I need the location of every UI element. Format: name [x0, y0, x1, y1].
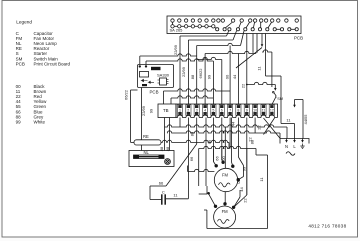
svg-text:FM: FM: [222, 209, 229, 214]
svg-text:66: 66: [189, 156, 194, 161]
lower motor diagonal feed right: [234, 197, 240, 207]
lower FM terminals: [214, 205, 217, 208]
svg-text:C: C: [162, 189, 165, 194]
svg-text:66: 66: [215, 156, 220, 161]
U-link to lower motor: [199, 193, 207, 195]
upper FM terminals: [215, 165, 218, 168]
SA330 pin joints: [139, 66, 141, 68]
mains terminal L: [294, 139, 296, 142]
bus y59.5: [197, 57, 222, 59]
svg-text:44: 44: [239, 187, 244, 192]
svg-text:PCB: PCB: [150, 90, 159, 95]
TB wavy bottom edge: [176, 115, 278, 118]
bus y37.6 (t2 feed, slants into PCB): [188, 39, 233, 41]
svg-text:RE: RE: [143, 134, 149, 139]
bus y61 into SA330 pin 2: [146, 59, 213, 61]
svg-text:99: 99: [16, 119, 22, 124]
svg-text:7: 7: [229, 108, 231, 112]
SA330 component: relay (dark block): [151, 67, 161, 70]
diagonal wire joining 44 net: [236, 48, 262, 69]
bus y98: [171, 96, 213, 98]
SA330 component: diode arrows: [142, 79, 148, 81]
svg-text:00: 00: [225, 74, 230, 79]
svg-text:Print Circuit Board: Print Circuit Board: [34, 61, 71, 66]
svg-text:Legend: Legend: [16, 19, 32, 24]
capacitor C plates: [150, 199, 161, 201]
svg-text:44: 44: [232, 74, 237, 79]
SA265 link from chained group to right pins: [215, 27, 216, 28]
TB terminal 9: [245, 105, 248, 108]
svg-text:NL: NL: [144, 150, 150, 155]
SA265 top pin row: [171, 19, 174, 22]
SA330 pin1 drop: [139, 56, 141, 65]
svg-text:66/22: 66/22: [123, 89, 128, 100]
PCB SA330 outline: [138, 65, 174, 88]
SM wire to TB terminal 12: [272, 98, 275, 104]
diagonal from t11 to bracket: [264, 118, 281, 138]
loop around lower motor: [255, 149, 257, 156]
svg-text:PCB: PCB: [294, 36, 303, 41]
svg-text:22/99: 22/99: [141, 105, 146, 116]
svg-text:3: 3: [196, 108, 198, 112]
wire 00 (PCB to TB terminal 7): [229, 46, 231, 105]
diagonal from t12 down-left: [264, 118, 275, 135]
bus y84.5 to switch main: [247, 82, 275, 84]
TB terminal 10: [253, 105, 256, 108]
bus y127 to mains N: [165, 125, 288, 127]
bus y171.5 into upper FM left: [187, 166, 189, 172]
svg-text:99: 99: [149, 108, 154, 113]
svg-text:2: 2: [187, 108, 189, 112]
wire to TB terminal 5: [212, 61, 214, 104]
svg-text:SA 265: SA 265: [170, 28, 184, 33]
TB terminal 5: [212, 105, 215, 108]
svg-text:88: 88: [190, 74, 195, 79]
svg-text:5: 5: [212, 108, 214, 112]
bus y34.2 (t1 feed, slants into PCB): [180, 35, 227, 37]
SA330 pin2 drop: [145, 61, 147, 65]
capacitor loop top: [150, 185, 166, 187]
TB terminal cells 1-12: [176, 104, 278, 118]
bus y142 from RE: [161, 140, 229, 142]
wire to TB terminal 2: [187, 40, 189, 104]
svg-text:4: 4: [204, 108, 206, 112]
svg-text:6: 6: [221, 108, 223, 112]
SA330 component: small dark resistor: [142, 84, 147, 86]
SA330 component: IC square: [160, 78, 167, 85]
TB terminal 6: [220, 105, 223, 108]
wire 22/99 from SA330 to neon lamp: [141, 88, 143, 140]
TB drops into buses: [164, 118, 166, 151]
bus y133 to mains bracket: [167, 131, 280, 133]
wire to TB terminal 3: [196, 46, 198, 105]
SA265 jumper links: [225, 22, 232, 28]
svg-text:22/99: 22/99: [173, 44, 178, 55]
fan motor FM (upper): [214, 168, 237, 191]
fan motor FM (lower): [214, 206, 236, 228]
wire 11: corner run to mains N: [266, 75, 282, 77]
svg-text:88: 88: [250, 139, 255, 144]
PCB SA 265 outline: [167, 16, 301, 34]
neon lamp assembly box: [129, 151, 174, 167]
SA265 bottom pin row (left group, chained): [171, 25, 174, 28]
svg-text:66/22: 66/22: [198, 68, 203, 79]
wire 44 into motor right side: [238, 157, 243, 166]
wire to switch main SM: [271, 52, 273, 87]
TB terminal 3: [195, 105, 198, 108]
svg-text:11: 11: [262, 108, 266, 112]
wire to TB terminal 6: [221, 60, 223, 105]
bus y148.5 (motor feed): [199, 146, 256, 148]
svg-text:22: 22: [243, 198, 248, 203]
wire stub to bus y52.9 (2): [256, 34, 258, 53]
terminal strip TB label box: [158, 104, 176, 118]
svg-text:10: 10: [253, 108, 257, 112]
wire to TB terminal 9: [246, 34, 248, 105]
TB terminal 4: [203, 105, 206, 108]
wire ending in arrow (goes to other sheet): [261, 34, 263, 46]
capacitor right lead up to TB t2 wire: [166, 198, 188, 200]
AC symbol: [286, 152, 295, 156]
wire 22/99 (PCB to TB terminal 1): [179, 36, 181, 104]
wire 66/22 from SA330 to reactor RE: [130, 90, 132, 142]
switch main SM: contacts and arm: [273, 91, 275, 93]
mains terminal N: [286, 139, 288, 142]
bus y53.5: [205, 51, 256, 53]
svg-text:22: 22: [240, 83, 245, 88]
svg-text:TB: TB: [163, 108, 169, 113]
starter (circle with cross): [165, 159, 171, 165]
TB terminal 11: [262, 105, 265, 108]
long diagonal wire (TB t3 to capacitor loop): [166, 144, 197, 186]
svg-text:1: 1: [179, 108, 181, 112]
wire 11 from PCB: [265, 34, 267, 77]
earth wire 44/55 hook with arrow: [294, 100, 296, 106]
TB terminal 12: [270, 105, 273, 108]
mains bracket: [280, 139, 309, 144]
svg-text:99: 99: [207, 74, 212, 79]
svg-text:88: 88: [159, 146, 164, 151]
TB terminal 1: [178, 105, 181, 108]
bus y43.2 (t3 feed, slants into PCB): [197, 43, 241, 45]
switch main SM: feed arrow: [274, 85, 276, 90]
svg-text:22/99: 22/99: [181, 66, 186, 77]
svg-text:9: 9: [246, 108, 248, 112]
svg-text:FM: FM: [222, 172, 229, 177]
SA330 component: capacitor box: [140, 72, 149, 78]
svg-text:88: 88: [190, 131, 195, 136]
svg-text:22: 22: [257, 125, 262, 130]
svg-text:N: N: [285, 144, 288, 149]
wire to TB terminal 4: [204, 54, 206, 105]
svg-text:SM: SM: [277, 96, 283, 101]
TB terminal 2: [187, 105, 190, 108]
link upper FM to lower FM: [224, 192, 226, 204]
short bus y52 right: [262, 50, 272, 52]
svg-text:SA330: SA330: [157, 73, 170, 78]
svg-text:88: 88: [165, 146, 170, 151]
wire to lower motor right: [246, 149, 248, 196]
svg-text:4812 716 78038: 4812 716 78038: [308, 224, 346, 229]
SA265 bottom pin row (right group): [216, 28, 219, 31]
mains terminal earth: [302, 139, 304, 142]
wire stub to bus y52.9: [252, 34, 254, 53]
bus y56 into SA330 pin 1: [140, 54, 197, 56]
TB terminal 7: [228, 105, 231, 108]
reactor RE body: [134, 140, 161, 145]
svg-text:12: 12: [270, 108, 274, 112]
svg-text:00: 00: [221, 156, 226, 161]
TB terminal 8: [237, 105, 240, 108]
neon lamp tube: [134, 155, 165, 159]
svg-text:PCB: PCB: [16, 61, 25, 66]
svg-text:66: 66: [159, 180, 164, 185]
svg-text:White: White: [34, 119, 46, 124]
bus y91: [164, 89, 231, 91]
upper motor wire drops: [212, 149, 214, 162]
svg-text:99: 99: [242, 166, 247, 171]
svg-text:8: 8: [237, 108, 239, 112]
wire 44 (PCB to TB terminal 8): [237, 54, 239, 105]
svg-text:44/55: 44/55: [303, 114, 308, 125]
